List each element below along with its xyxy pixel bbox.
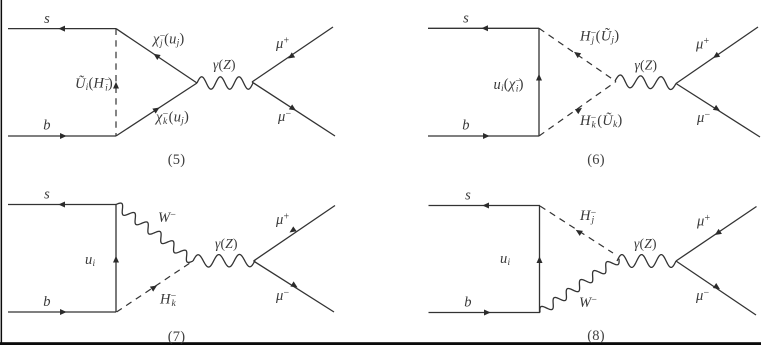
- svg-text:H−j: H−j: [579, 208, 597, 226]
- caption (7): [168, 329, 186, 345]
- svg-text:b: b: [43, 118, 50, 134]
- svg-text:ui(χ−i): ui(χ−i): [494, 76, 524, 94]
- label mu+ (diagram 7): [275, 212, 289, 229]
- chargino line chi-k (diagram 5): [116, 83, 197, 136]
- label ui(chi-i) (diagram 6): [494, 76, 524, 94]
- fermion propagator ui(chi-i) (diagram 6): [536, 28, 542, 136]
- svg-text:χ−k(uj): χ−k(uj): [154, 109, 189, 127]
- svg-text:χ−j(uj): χ−j(uj): [151, 31, 184, 49]
- muon- line (diagram 8): [676, 261, 756, 315]
- photon gamma(Z) (diagram 5): [197, 77, 253, 89]
- muon- line (diagram 5): [252, 82, 335, 136]
- chargino line chi-j (diagram 5): [116, 29, 197, 83]
- label H-k(U~k) (diagram 6): [579, 112, 622, 131]
- label chi-k(uj) (diagram 5): [154, 109, 189, 127]
- label W- (diagram 8): [579, 295, 597, 312]
- label chi-j(uj) (diagram 5): [151, 31, 184, 49]
- fermion line s (diagram 7): [8, 202, 116, 208]
- label mu+ (diagram 6): [695, 36, 709, 53]
- label ui (diagram 7): [85, 252, 95, 269]
- fermion line b (diagram 7): [8, 309, 116, 315]
- label gamma(Z) (diagram 7): [215, 236, 238, 251]
- label s (diagram 6): [463, 11, 469, 27]
- label gamma(Z) (diagram 5): [213, 57, 236, 72]
- svg-text:(5): (5): [168, 152, 186, 168]
- label s (diagram 5): [44, 11, 50, 27]
- scalar line H-k dashed (diagram 7): [117, 261, 194, 312]
- label mu- (diagram 6): [696, 110, 710, 127]
- svg-text:s: s: [465, 188, 471, 204]
- muon+ line (diagram 7): [254, 206, 336, 262]
- muon+ line (diagram 5): [252, 27, 333, 82]
- muon+ line (diagram 6): [676, 27, 758, 84]
- photon gamma(Z) (diagram 7): [193, 254, 255, 267]
- scalar line H-j dashed (diagram 8): [540, 206, 613, 253]
- caption (5): [168, 152, 186, 168]
- scalar line H-k dashed (diagram 6): [539, 82, 616, 137]
- caption (8): [587, 328, 605, 344]
- label H-j (diagram 8): [579, 208, 597, 226]
- svg-text:γ(Z): γ(Z): [635, 58, 658, 73]
- label mu+ (diagram 8): [696, 213, 710, 230]
- photon gamma(Z) (diagram 6): [615, 75, 676, 89]
- fermion line b (diagram 6): [428, 133, 539, 139]
- svg-text:(6): (6): [587, 152, 605, 168]
- label b (diagram 6): [462, 118, 469, 134]
- muon- line (diagram 7): [254, 261, 335, 312]
- muon- line (diagram 6): [676, 84, 760, 138]
- label mu+ (diagram 5): [275, 36, 289, 53]
- fermion propagator ui (diagram 7): [113, 205, 119, 313]
- label s (diagram 8): [465, 188, 471, 204]
- label b (diagram 7): [43, 294, 50, 310]
- label H-k (diagram 7): [159, 291, 177, 309]
- label W- (diagram 7): [158, 210, 176, 227]
- photon gamma(Z) (diagram 8): [617, 255, 676, 268]
- caption (6): [587, 152, 605, 168]
- W- boson wavy line (diagram 8): [540, 259, 619, 313]
- label gamma(Z) (diagram 8): [634, 236, 657, 251]
- svg-text:b: b: [43, 294, 50, 310]
- label b (diagram 5): [43, 118, 50, 134]
- label b (diagram 8): [464, 295, 471, 311]
- svg-text:b: b: [462, 118, 469, 134]
- label mu- (diagram 7): [275, 288, 289, 305]
- fermion propagator ui (diagram 8): [537, 206, 543, 313]
- label H-j(U~j) (diagram 6): [579, 28, 619, 47]
- scalar line H-j dashed (diagram 6): [539, 28, 616, 81]
- label ui (diagram 8): [500, 251, 510, 268]
- label s (diagram 7): [44, 187, 50, 203]
- svg-text:(8): (8): [587, 328, 605, 344]
- label gamma(Z) (diagram 6): [635, 58, 658, 73]
- label mu- (diagram 8): [695, 288, 709, 305]
- svg-text:γ(Z): γ(Z): [215, 236, 238, 251]
- W- boson wavy line (diagram 7): [116, 203, 193, 262]
- svg-text:H−k: H−k: [159, 291, 177, 309]
- svg-text:s: s: [44, 187, 50, 203]
- svg-text:γ(Z): γ(Z): [634, 236, 657, 251]
- scalar propagator U~i(H-i) dashed (diagram 5): [113, 29, 119, 136]
- svg-text:Ũi(H−i): Ũi(H−i): [75, 75, 113, 93]
- svg-text:b: b: [464, 295, 471, 311]
- label U~i(H-i) (diagram 5): [75, 75, 113, 93]
- svg-text:s: s: [44, 11, 50, 27]
- fermion line s (diagram 8): [429, 203, 541, 209]
- svg-text:(7): (7): [168, 329, 186, 345]
- svg-text:γ(Z): γ(Z): [213, 57, 236, 72]
- fermion line b (diagram 5): [8, 133, 116, 139]
- muon+ line (diagram 8): [676, 207, 757, 262]
- label mu- (diagram 5): [277, 109, 291, 126]
- svg-text:s: s: [463, 11, 469, 27]
- fermion line b (diagram 8): [429, 310, 541, 316]
- fermion line s (diagram 6): [428, 25, 539, 31]
- fermion line s (diagram 5): [8, 26, 116, 32]
